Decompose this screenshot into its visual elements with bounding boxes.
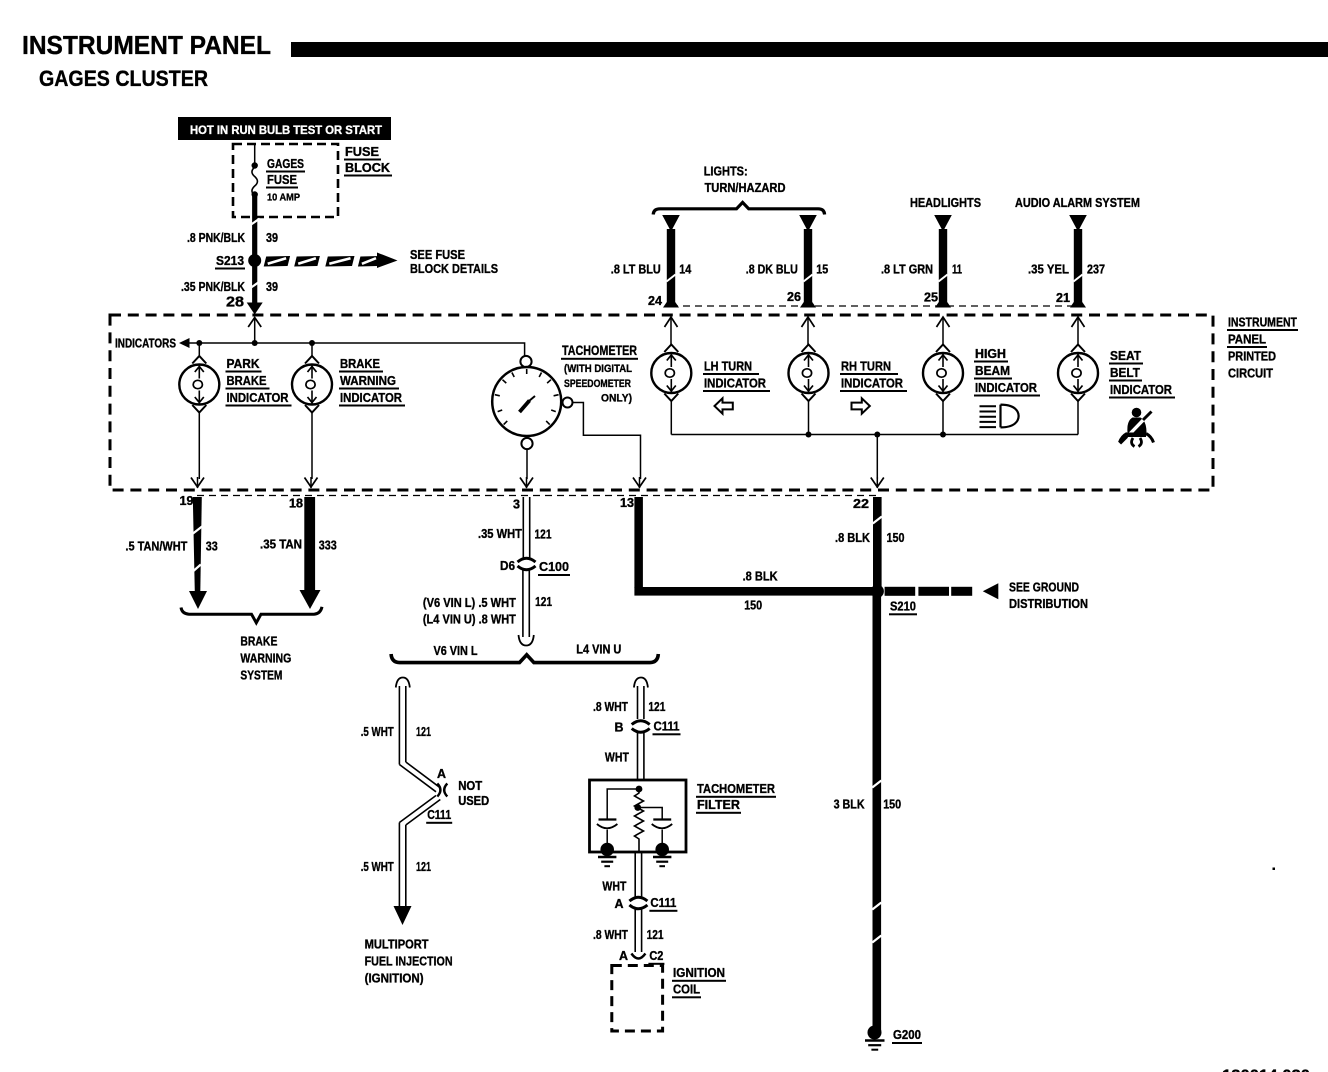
- svg-text:S213: S213: [216, 253, 244, 268]
- icon left turn arrow: [715, 398, 733, 413]
- wire .8 WHT to C2: [634, 910, 636, 953]
- svg-text:14: 14: [679, 262, 692, 277]
- svg-text:TACHOMETER: TACHOMETER: [697, 781, 776, 796]
- gauge tachometer: [520, 356, 531, 367]
- svg-text:INDICATOR: INDICATOR: [1110, 382, 1173, 397]
- svg-text:.35 YEL: .35 YEL: [1028, 262, 1069, 277]
- stray mark: [1273, 868, 1276, 871]
- svg-text:22: 22: [853, 497, 869, 511]
- node filter tap: [634, 804, 641, 811]
- svg-text:28: 28: [226, 294, 244, 311]
- svg-text:SPEEDOMETER: SPEEDOMETER: [564, 378, 631, 390]
- svg-text:COIL: COIL: [673, 982, 700, 997]
- ground filter left: [600, 843, 614, 857]
- svg-text:.8 LT GRN: .8 LT GRN: [881, 262, 933, 277]
- brace lights turn/hazard: [653, 202, 824, 214]
- wire pin 3 .35 WHT: [522, 497, 524, 558]
- svg-text:GAGES: GAGES: [267, 156, 304, 171]
- svg-text:SEE FUSE: SEE FUSE: [410, 247, 465, 262]
- svg-text:ONLY): ONLY): [601, 393, 632, 405]
- svg-text:(L4 VIN U) .8 WHT: (L4 VIN U) .8 WHT: [423, 612, 516, 627]
- svg-text:MULTIPORT: MULTIPORT: [365, 937, 429, 952]
- svg-text:WARNING: WARNING: [340, 373, 396, 388]
- wire V6 .5 WHT lower: [399, 796, 436, 823]
- wire brake warning to pin 18: [311, 413, 313, 479]
- svg-text:A: A: [437, 766, 447, 781]
- capacitor filter right: [653, 818, 671, 820]
- svg-text:GAGES CLUSTER: GAGES CLUSTER: [39, 66, 208, 91]
- wire indicator ground bus: [671, 434, 1078, 436]
- node filter input: [636, 786, 643, 793]
- svg-text:RH TURN: RH TURN: [841, 359, 891, 374]
- svg-text:INDICATOR: INDICATOR: [975, 380, 1038, 395]
- svg-text:.8 WHT: .8 WHT: [593, 927, 628, 942]
- svg-text:3 BLK: 3 BLK: [834, 797, 866, 812]
- svg-text:SEE GROUND: SEE GROUND: [1009, 580, 1079, 595]
- svg-text:121: 121: [416, 724, 431, 739]
- svg-text:(IGNITION): (IGNITION): [365, 971, 424, 986]
- power feed box HOT IN RUN BULB TEST OR START: [178, 117, 391, 140]
- wire WHT out of filter: [634, 852, 636, 898]
- splice S210: [871, 585, 884, 598]
- svg-text:33: 33: [206, 539, 218, 554]
- svg-text:18: 18: [289, 497, 303, 511]
- connector C111 pin A not used: [437, 784, 440, 797]
- wire seat belt to bus: [1077, 401, 1079, 435]
- svg-text:AUDIO ALARM SYSTEM: AUDIO ALARM SYSTEM: [1015, 195, 1140, 210]
- svg-text:V6 VIN L: V6 VIN L: [434, 643, 478, 658]
- svg-text:.8 WHT: .8 WHT: [593, 699, 628, 714]
- wire high beam to bus: [942, 401, 944, 435]
- svg-text:PRINTED: PRINTED: [1228, 350, 1276, 364]
- fuse block dashed box: [233, 144, 338, 217]
- svg-text:121: 121: [648, 699, 665, 714]
- svg-text:WHT: WHT: [602, 879, 626, 894]
- svg-text:BEAM: BEAM: [975, 363, 1010, 378]
- svg-text:D6: D6: [500, 558, 515, 573]
- svg-text:TURN/HAZARD: TURN/HAZARD: [705, 180, 786, 195]
- svg-text:S210: S210: [890, 599, 916, 614]
- see fuse block details arrow: [264, 256, 290, 267]
- svg-text:11: 11: [952, 262, 962, 277]
- svg-text:19: 19: [180, 494, 194, 508]
- wire tachometer to pin 13: [573, 403, 641, 480]
- svg-text:BRAKE: BRAKE: [240, 634, 277, 649]
- wire RH turn to bus: [808, 401, 810, 435]
- wire 3 BLK to G200: [873, 591, 882, 1031]
- wire L4 .8 WHT to C111: [637, 686, 639, 719]
- svg-text:BLOCK DETAILS: BLOCK DETAILS: [410, 261, 498, 276]
- wire C100 to split (V6/L4 WHT): [522, 570, 524, 637]
- svg-text:39: 39: [266, 230, 278, 245]
- svg-text:INSTRUMENT PANEL: INSTRUMENT PANEL: [22, 32, 271, 60]
- svg-text:LIGHTS:: LIGHTS:: [704, 164, 748, 179]
- svg-text:HEADLIGHTS: HEADLIGHTS: [910, 195, 981, 210]
- wire filter left branch: [607, 789, 639, 819]
- svg-text:.8 DK BLU: .8 DK BLU: [746, 262, 798, 277]
- ground filter right: [655, 843, 669, 857]
- wire filter right branch: [638, 808, 662, 819]
- svg-text:25: 25: [924, 291, 938, 305]
- svg-text:.5 WHT: .5 WHT: [361, 724, 394, 739]
- svg-text:L4 VIN U: L4 VIN U: [576, 642, 621, 657]
- svg-text:121: 121: [535, 594, 552, 609]
- svg-text:IGNITION: IGNITION: [673, 965, 725, 980]
- svg-text:BLOCK: BLOCK: [345, 160, 391, 175]
- svg-text:INDICATOR: INDICATOR: [227, 390, 290, 405]
- wire pin 22 .8 BLK: [873, 497, 882, 591]
- connector C2 pin A: [631, 954, 645, 959]
- svg-text:INDICATOR: INDICATOR: [841, 376, 904, 391]
- svg-text:SYSTEM: SYSTEM: [240, 668, 282, 683]
- header bar: [291, 42, 1328, 57]
- wire fuse feed: [254, 144, 256, 163]
- svg-text:.5 WHT: .5 WHT: [361, 859, 394, 874]
- lamp park brake indicator: [198, 343, 200, 357]
- node bus pin 22 drop: [874, 432, 880, 438]
- node bus high beam: [940, 432, 946, 438]
- svg-text:CIRCUIT: CIRCUIT: [1228, 367, 1273, 381]
- instrument panel printed circuit box: [110, 315, 1213, 490]
- svg-text:26: 26: [787, 290, 801, 304]
- svg-text:B: B: [615, 720, 624, 735]
- svg-text:A: A: [615, 896, 625, 911]
- connector C100 pin D6: [518, 558, 536, 562]
- wire V6 .5 WHT upper: [398, 686, 400, 765]
- wire tachometer to pin 3: [526, 449, 528, 479]
- wire hazard feed pin 26: [799, 215, 817, 232]
- wire pin 13 .8 BLK: [634, 497, 643, 588]
- svg-text:FUSE: FUSE: [345, 144, 379, 159]
- lamp RH turn indicator: [807, 344, 810, 347]
- wire pin 19 .5 TAN/WHT: [193, 497, 202, 592]
- svg-text:121: 121: [416, 859, 431, 874]
- svg-text:C111: C111: [654, 719, 680, 734]
- svg-text:.8 BLK: .8 BLK: [743, 569, 779, 584]
- svg-text:INDICATOR: INDICATOR: [704, 376, 767, 391]
- resistor filter: [635, 789, 644, 852]
- svg-text:G200: G200: [893, 1027, 921, 1042]
- svg-text:BRAKE: BRAKE: [340, 356, 380, 371]
- node bus brake warning: [309, 340, 315, 346]
- svg-text:.8 BLK: .8 BLK: [835, 530, 871, 545]
- wire LH turn to bus: [670, 401, 672, 435]
- wire indicators bus: [190, 343, 525, 356]
- see ground distribution arrow: [885, 587, 916, 596]
- brace V6 VIN L / L4 VIN U split: [391, 654, 658, 663]
- svg-text:.8 PNK/BLK: .8 PNK/BLK: [187, 230, 245, 245]
- svg-text:10 AMP: 10 AMP: [267, 192, 300, 204]
- svg-text:3: 3: [513, 498, 520, 512]
- svg-text:BELT: BELT: [1110, 365, 1140, 380]
- svg-text:HIGH: HIGH: [975, 346, 1006, 361]
- svg-text:PARK: PARK: [227, 356, 261, 371]
- svg-text:FUSE: FUSE: [267, 172, 297, 187]
- svg-text:150: 150: [883, 797, 901, 812]
- svg-text:TACHOMETER: TACHOMETER: [562, 343, 637, 358]
- svg-text:24: 24: [648, 294, 662, 308]
- wire start curl L4 branch: [634, 678, 648, 688]
- svg-text:SEAT: SEAT: [1110, 348, 1141, 363]
- wire S213 to pin 28: [252, 261, 257, 304]
- splice S213: [248, 254, 261, 267]
- wire pin24-21 link: [671, 305, 1078, 307]
- fuse GAGES FUSE 10 AMP: [252, 167, 258, 196]
- wire audio alarm feed pin 21: [1069, 215, 1087, 232]
- lamp LH turn indicator: [670, 344, 672, 347]
- svg-text:HOT IN RUN BULB TEST OR START: HOT IN RUN BULB TEST OR START: [190, 125, 382, 137]
- node fuse top: [252, 162, 258, 168]
- svg-text:A: A: [619, 948, 629, 963]
- svg-text:INDICATOR: INDICATOR: [340, 390, 403, 405]
- wire lights turn feed pin 24: [662, 215, 680, 232]
- svg-text:21: 21: [1056, 291, 1070, 305]
- svg-text:39: 39: [266, 279, 278, 294]
- brace brake warning system: [181, 607, 322, 623]
- wire WHT into filter: [637, 733, 639, 780]
- svg-text:121: 121: [647, 927, 664, 942]
- svg-text:NOT: NOT: [458, 778, 482, 793]
- svg-text:.8 LT BLU: .8 LT BLU: [611, 262, 661, 277]
- svg-text:13: 13: [620, 496, 634, 510]
- svg-text:INDICATORS: INDICATORS: [115, 337, 176, 351]
- wire start curl V6 branch: [396, 678, 410, 688]
- svg-text:.35 WHT: .35 WHT: [478, 526, 522, 541]
- wire park brake to pin 19: [198, 413, 200, 479]
- svg-text:INSTRUMENT: INSTRUMENT: [1228, 316, 1297, 330]
- svg-text:333: 333: [319, 538, 337, 553]
- svg-text:LH TURN: LH TURN: [704, 359, 752, 374]
- ground G200: [868, 1026, 882, 1040]
- wire bus to pin 22: [876, 435, 878, 480]
- svg-text:FILTER: FILTER: [697, 797, 741, 812]
- svg-text:DISTRIBUTION: DISTRIBUTION: [1009, 596, 1088, 611]
- svg-text:.35 PNK/BLK: .35 PNK/BLK: [181, 279, 245, 294]
- svg-text:150: 150: [887, 530, 905, 545]
- tachometer filter box: [590, 780, 687, 852]
- svg-text:.5 TAN/WHT: .5 TAN/WHT: [125, 539, 187, 554]
- icon high beam headlamp: [980, 405, 997, 407]
- wire pin28 to bus: [248, 318, 261, 328]
- svg-text:WHT: WHT: [605, 750, 629, 765]
- connector C111 pin A (lower): [629, 897, 647, 901]
- svg-text:USED: USED: [458, 793, 489, 808]
- icon seat belt person: [1132, 408, 1142, 418]
- svg-text:.35 TAN: .35 TAN: [260, 537, 302, 552]
- capacitor filter left: [599, 818, 617, 820]
- node bus pin 28: [252, 340, 258, 346]
- svg-text:PANEL: PANEL: [1228, 333, 1266, 347]
- ignition coil dashed box: [612, 966, 663, 1032]
- svg-text:(WITH DIGITAL: (WITH DIGITAL: [564, 363, 632, 375]
- svg-text:C100: C100: [539, 559, 569, 574]
- svg-text:FUEL INJECTION: FUEL INJECTION: [365, 954, 453, 969]
- wire headlights feed pin 25: [934, 215, 952, 232]
- node fuse bottom: [252, 191, 258, 197]
- svg-text:237: 237: [1087, 262, 1105, 277]
- svg-text:BRAKE: BRAKE: [227, 373, 267, 388]
- lamp brake warning indicator: [311, 343, 313, 357]
- svg-text:150: 150: [744, 598, 762, 613]
- wire pin 18 .35 TAN: [304, 497, 315, 592]
- svg-text:(V6 VIN L) .5 WHT: (V6 VIN L) .5 WHT: [423, 595, 516, 610]
- lamp high beam indicator: [942, 344, 944, 347]
- svg-text:C111: C111: [427, 807, 451, 822]
- lamp seat belt indicator: [1077, 344, 1079, 347]
- svg-text:121: 121: [535, 527, 552, 542]
- svg-text:C111: C111: [650, 895, 676, 910]
- svg-text:15: 15: [816, 262, 828, 277]
- wire pin19-22 link: [197, 495, 877, 497]
- wire fuse to S213: [252, 195, 257, 261]
- connector C111 pin B: [632, 721, 650, 725]
- svg-text:130014 030: 130014 030: [1222, 1066, 1310, 1072]
- icon right turn arrow: [852, 398, 870, 413]
- svg-text:WARNING: WARNING: [240, 651, 291, 666]
- wire end curl at split: [519, 635, 534, 646]
- node bus RH turn: [806, 432, 812, 438]
- svg-text:C2: C2: [649, 948, 663, 963]
- node bus park brake: [196, 340, 202, 346]
